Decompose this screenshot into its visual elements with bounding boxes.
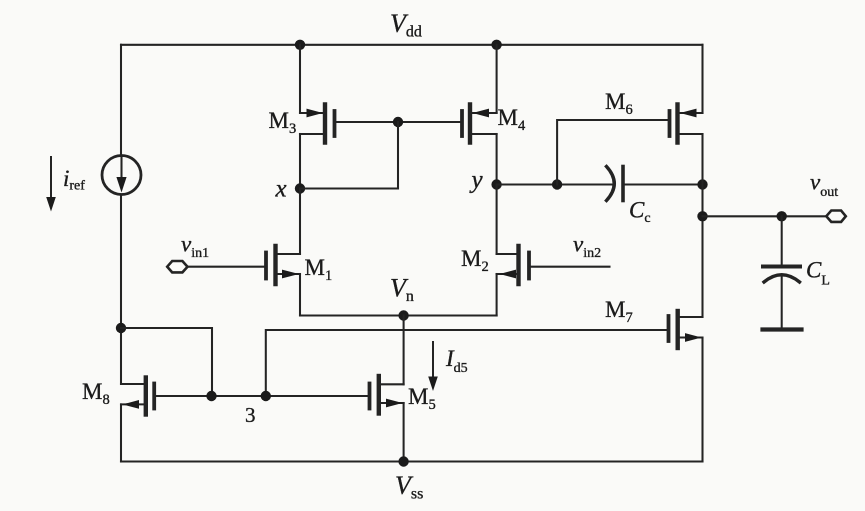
wire Cc to right spine (625, 183, 703, 185)
svg-text:Vdd: Vdd (390, 9, 422, 41)
svg-text:M5: M5 (408, 384, 436, 413)
svg-text:3: 3 (245, 403, 256, 427)
svg-text:Vss: Vss (395, 471, 423, 503)
svg-text:x: x (275, 176, 287, 203)
wire node x horizontal (300, 187, 398, 189)
svg-text:M3: M3 (269, 108, 297, 137)
svg-text:M1: M1 (305, 255, 333, 284)
node Vdd dot right (M4 drain) (491, 40, 501, 50)
svg-text:M6: M6 (605, 89, 633, 118)
wire gate line M3-M4 (335, 121, 463, 123)
wire bias link to node 3 (121, 328, 212, 396)
svg-text:M8: M8 (82, 379, 110, 408)
wire Vn to M5 drain (403, 316, 405, 385)
node vout tee dot (697, 211, 707, 221)
wire node3 riser to M7 gate (266, 330, 669, 396)
node Vss dot (398, 456, 408, 466)
wire vin2 gate lead (529, 266, 610, 268)
transistor M6 (670, 45, 703, 317)
wire Vss bottom rail (121, 460, 703, 462)
wire left rail upper (120, 45, 122, 156)
wire left rail middle (120, 195, 122, 385)
capacitor CL (763, 216, 802, 329)
transistor M8 (121, 378, 154, 462)
node bias tap dot on left rail (116, 323, 126, 333)
wire Vdd top rail (121, 44, 703, 46)
node right spine / Cc dot (697, 179, 707, 189)
svg-text:vin1: vin1 (181, 232, 209, 262)
svg-text:Cc: Cc (629, 198, 651, 227)
node y dot (491, 179, 501, 189)
annotation arrow i_ref (46, 157, 56, 212)
wire node y horizontal to Cc (497, 183, 613, 185)
terminal vout (826, 211, 846, 222)
wire vin1 gate lead (188, 266, 267, 268)
wire node 3 bias line (154, 395, 369, 397)
current source i_ref circle (102, 156, 141, 195)
current source arrow inside (116, 157, 126, 193)
annotation arrow Id5 (428, 342, 438, 391)
node CL tap dot (777, 211, 787, 221)
node gate junction dot (393, 117, 403, 127)
node Vdd dot left (M3 drain) (295, 40, 305, 50)
wire diode-connect riser (397, 122, 399, 189)
svg-text:vin2: vin2 (573, 232, 601, 262)
svg-text:iref: iref (63, 166, 85, 194)
capacitor Cc straight plate (621, 167, 625, 201)
wire M6 gate riser and lead (557, 120, 669, 185)
node Vn dot (398, 310, 408, 320)
wire tail node Vn (300, 314, 497, 316)
node M6 gate tap dot (552, 179, 562, 189)
transistor M7 (669, 311, 703, 462)
transistor M5 (370, 376, 404, 462)
svg-text:CL: CL (806, 258, 830, 289)
node 3 dot left (206, 391, 216, 401)
transistor M4 (462, 45, 497, 185)
terminal vin1 (167, 261, 187, 272)
svg-text:Vn: Vn (390, 274, 414, 306)
transistor M3 (300, 45, 335, 189)
svg-text:Id5: Id5 (445, 346, 468, 376)
svg-text:M2: M2 (461, 246, 489, 275)
svg-text:M4: M4 (498, 105, 526, 134)
capacitor Cc curved plate (607, 167, 615, 201)
node 3 dot right (261, 391, 271, 401)
node x dot (295, 183, 305, 193)
wire vout line (703, 215, 827, 217)
transistor M2 (497, 185, 529, 316)
transistor M1 (266, 189, 300, 316)
svg-text:M7: M7 (605, 297, 633, 326)
svg-text:vout: vout (810, 170, 838, 201)
svg-text:y: y (469, 167, 484, 194)
